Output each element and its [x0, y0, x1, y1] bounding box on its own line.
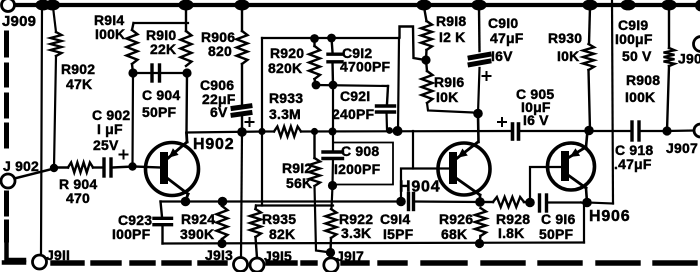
wire y73 with C904 — [133, 72, 187, 74]
svg-text:50 V: 50 V — [622, 48, 652, 64]
node J917 — [326, 248, 335, 257]
transistor H902 — [146, 143, 199, 196]
resistor R902 — [51, 32, 62, 56]
svg-text:C 908: C 908 — [341, 143, 379, 159]
wire C916 to right corner — [548, 201, 581, 203]
stub above rail at C919 dot — [627, 0, 630, 5]
svg-text:I00PF: I00PF — [112, 226, 151, 242]
resistor R912 — [313, 132, 315, 159]
node C912 bottom — [329, 81, 338, 90]
wire R916 to emitter node — [427, 103, 478, 114]
svg-text:56K: 56K — [286, 175, 312, 191]
capacitor C923 — [154, 217, 172, 220]
svg-text:47K: 47K — [66, 76, 92, 92]
node H906 collector — [582, 198, 592, 208]
svg-text:22K: 22K — [150, 41, 176, 57]
svg-text:470: 470 — [66, 190, 90, 206]
capacitor C916 — [538, 195, 541, 211]
svg-text:4700PF: 4700PF — [340, 59, 390, 75]
node R924 top — [218, 197, 228, 207]
resistor R928 — [480, 201, 493, 203]
svg-text:J909: J909 — [2, 13, 36, 30]
node C908 bottom — [328, 181, 337, 190]
svg-text:J9II: J9II — [46, 247, 70, 263]
svg-text:R920: R920 — [270, 45, 304, 61]
resistor R904 — [68, 163, 93, 173]
svg-text:R930: R930 — [548, 30, 582, 46]
corner down to C923 — [161, 202, 163, 218]
resistor R908 — [668, 7, 670, 48]
bus junction C908 wire — [329, 128, 337, 136]
resistor R914 — [127, 30, 138, 64]
H902 emitter stub to bus — [185, 133, 188, 142]
svg-text:R9I6: R9I6 — [434, 74, 464, 90]
node R910/C904 — [182, 68, 191, 77]
connector J915 — [250, 258, 264, 272]
svg-text:I μF: I μF — [97, 121, 123, 137]
svg-text:50PF: 50PF — [142, 104, 177, 120]
svg-text:C 9I6: C 9I6 — [541, 211, 575, 227]
resistor R920 — [313, 39, 315, 47]
node R926 bottom — [475, 239, 484, 248]
node H904 collector — [475, 197, 485, 207]
wire y205 segment — [256, 204, 333, 206]
wire C912 node down to C908 — [332, 85, 334, 151]
svg-text:R926: R926 — [439, 211, 473, 227]
node R920 top — [310, 34, 319, 43]
wire base node to H902 base — [133, 167, 161, 168]
capacitor C910 electrolytic — [478, 7, 481, 51]
bus wire middle segment — [301, 130, 511, 133]
lead to R914 — [132, 23, 134, 30]
H906 collector stub — [586, 188, 587, 203]
wire R904 to C902 — [93, 166, 104, 168]
svg-text:820K: 820K — [268, 60, 302, 76]
node H906 emitter/R930 — [584, 126, 594, 136]
node C912 top — [327, 34, 336, 43]
svg-text:25V: 25V — [93, 137, 119, 153]
svg-text:390K: 390K — [180, 226, 214, 242]
capacitor C918 in bus — [630, 122, 633, 140]
connector J913 — [234, 258, 248, 272]
capacitor C912 — [332, 38, 333, 52]
bus wire right segment — [520, 130, 630, 132]
resistor R930 — [589, 7, 590, 44]
node R920 bottom — [312, 81, 321, 90]
svg-text:I6V: I6V — [491, 48, 513, 64]
wire C906 to bus node — [241, 115, 243, 132]
svg-text:J9I7: J9I7 — [336, 248, 364, 264]
C910 plus — [483, 75, 491, 77]
svg-text:R9I2: R9I2 — [282, 160, 312, 176]
svg-text:I00K: I00K — [625, 89, 655, 105]
resistor R924 — [217, 206, 228, 239]
svg-text:J907: J907 — [666, 140, 698, 156]
node R908/C918 — [662, 126, 671, 135]
rail junction dots — [35, 0, 50, 10]
svg-text:240PF: 240PF — [332, 106, 374, 122]
capacitor C914 — [407, 194, 410, 210]
capacitor C902 — [102, 159, 105, 176]
bus wire to R908 node — [641, 130, 667, 132]
wire C914 to H904 collector node — [415, 200, 480, 203]
H904 base jog wire — [401, 169, 450, 202]
C902 plus — [120, 154, 128, 156]
svg-text:R935: R935 — [262, 211, 296, 227]
connector J909 — [2, 0, 15, 12]
bus node C906 — [237, 127, 247, 137]
svg-text:J9I5: J9I5 — [264, 248, 292, 264]
offpage vertical wire — [612, 0, 613, 204]
connector J917 — [324, 258, 338, 272]
svg-text:J 902: J 902 — [3, 158, 39, 174]
svg-text:3.3M: 3.3M — [269, 106, 301, 122]
wire R910 down to emitter bus — [185, 73, 188, 133]
svg-text:H906: H906 — [589, 208, 630, 225]
wire C902 to base node — [113, 167, 133, 168]
junction blob at rail end — [695, 0, 700, 12]
node C914 left — [396, 197, 406, 207]
node J902/R902 — [50, 164, 58, 172]
capacitor C908 — [323, 150, 343, 153]
svg-text:R902: R902 — [61, 61, 95, 77]
wire R914 to node — [132, 64, 133, 73]
H904 collector stub — [479, 195, 482, 202]
svg-text:C9I4: C9I4 — [380, 211, 410, 227]
corner wire down to bus — [398, 38, 399, 131]
H902 collector stub — [186, 194, 189, 202]
svg-text:47μF: 47μF — [490, 30, 524, 46]
svg-text:I.8K: I.8K — [498, 225, 524, 241]
resistor R926 — [475, 208, 486, 236]
svg-text:.47μF: .47μF — [614, 156, 652, 172]
resistor R906 — [241, 7, 243, 31]
corner wire down to return — [581, 203, 584, 243]
svg-text:C92I: C92I — [340, 88, 370, 104]
jog wire box top to R918/R916 node — [400, 27, 426, 61]
svg-text:H902: H902 — [193, 136, 234, 153]
node H902 collector — [181, 197, 191, 207]
capacitor C905 electrolytic in bus — [511, 124, 515, 139]
node R912 top — [311, 128, 318, 135]
wire rail to R902 — [53, 7, 56, 32]
wire C910 to emitter node — [478, 68, 480, 114]
svg-text:I0K: I0K — [436, 89, 458, 105]
resistor R935 — [254, 206, 257, 210]
svg-text:I5PF: I5PF — [383, 226, 414, 242]
svg-text:3.3K: 3.3K — [341, 225, 371, 241]
node R924 bottom — [217, 239, 226, 248]
H904 emitter stub up — [477, 114, 480, 143]
svg-text:I00K: I00K — [95, 26, 125, 42]
node R914/C904 — [128, 68, 137, 77]
svg-text:R924: R924 — [181, 211, 215, 227]
svg-text:H904: H904 — [399, 179, 440, 196]
wire H906 collector to offpage vertical — [587, 203, 613, 204]
svg-text:I200PF: I200PF — [334, 161, 381, 177]
H906 base jog wire — [530, 167, 562, 203]
resistor R933 in bus — [274, 127, 301, 137]
C905 plus — [498, 121, 506, 123]
wire node to R904 — [54, 166, 68, 168]
wire top of R914 — [134, 22, 189, 24]
svg-text:I2 K: I2 K — [439, 29, 465, 45]
wire R906 to C906 — [241, 64, 243, 104]
svg-text:C 904: C 904 — [142, 87, 180, 103]
wire collector run y201 — [161, 200, 402, 202]
C906 plus — [246, 121, 254, 123]
capacitor C904 — [150, 65, 153, 81]
small bus node box edge — [258, 128, 265, 135]
bottom dashed border — [53, 260, 82, 265]
H906 emitter stub up to bus — [586, 131, 588, 148]
wire R912 down jog to J917 — [315, 186, 331, 253]
svg-text:82K: 82K — [269, 226, 295, 242]
bottom return wire — [163, 243, 585, 244]
bias box left edge wire — [261, 38, 263, 206]
connector J907 — [694, 124, 700, 137]
resistor R922 — [326, 209, 337, 238]
bus node at corner — [393, 126, 403, 136]
capacitor C921 — [387, 86, 388, 104]
svg-text:J90: J90 — [678, 51, 700, 67]
C908 label box — [333, 143, 393, 185]
svg-text:68K: 68K — [441, 226, 467, 242]
svg-text:R908: R908 — [626, 72, 660, 88]
resistor R910 — [185, 7, 187, 31]
node R918/R916 — [421, 55, 430, 64]
connector J911 — [33, 255, 47, 269]
wire J902 to node — [15, 169, 55, 179]
wire C908 node down through to R922 — [332, 186, 333, 210]
connector J902 — [1, 174, 15, 188]
transistor H904 — [438, 143, 490, 195]
top power rail — [15, 3, 700, 7]
bias box top wire — [262, 37, 399, 39]
connector J9xx top right — [694, 37, 700, 52]
wire y85 to C921 — [316, 85, 388, 86]
svg-text:R933: R933 — [269, 90, 303, 106]
svg-text:6V: 6V — [210, 104, 228, 120]
wire bus drop to base jog — [412, 131, 414, 169]
node H904 emitter — [473, 109, 483, 119]
svg-text:I6 V: I6 V — [523, 112, 549, 128]
svg-text:I0K: I0K — [557, 48, 579, 64]
emitter bus wire left segment — [187, 132, 263, 133]
svg-text:R9I8: R9I8 — [436, 13, 466, 29]
base node H902 — [128, 162, 136, 170]
wire C904 node down to base node — [131, 73, 134, 167]
resistor R916 — [426, 60, 427, 71]
wire rail to J911 — [41, 7, 42, 255]
wire C906 node down to J913 — [241, 132, 242, 258]
svg-text:I00μF: I00μF — [615, 31, 653, 47]
svg-text:J9I3: J9I3 — [205, 247, 233, 263]
wire R902 to J902 node — [54, 56, 56, 168]
node R928/C916 — [525, 198, 535, 208]
capacitor C906 electrolytic — [233, 106, 250, 108]
wire to J907 — [667, 129, 694, 132]
left dashed border — [4, 33, 9, 55]
dashed border bottom-left corner — [7, 244, 25, 260]
svg-text:C9I0: C9I0 — [488, 15, 518, 31]
svg-text:50PF: 50PF — [539, 226, 574, 242]
transistor H906 — [548, 143, 595, 190]
resistor R918 — [424, 7, 427, 21]
svg-text:820: 820 — [208, 43, 232, 59]
